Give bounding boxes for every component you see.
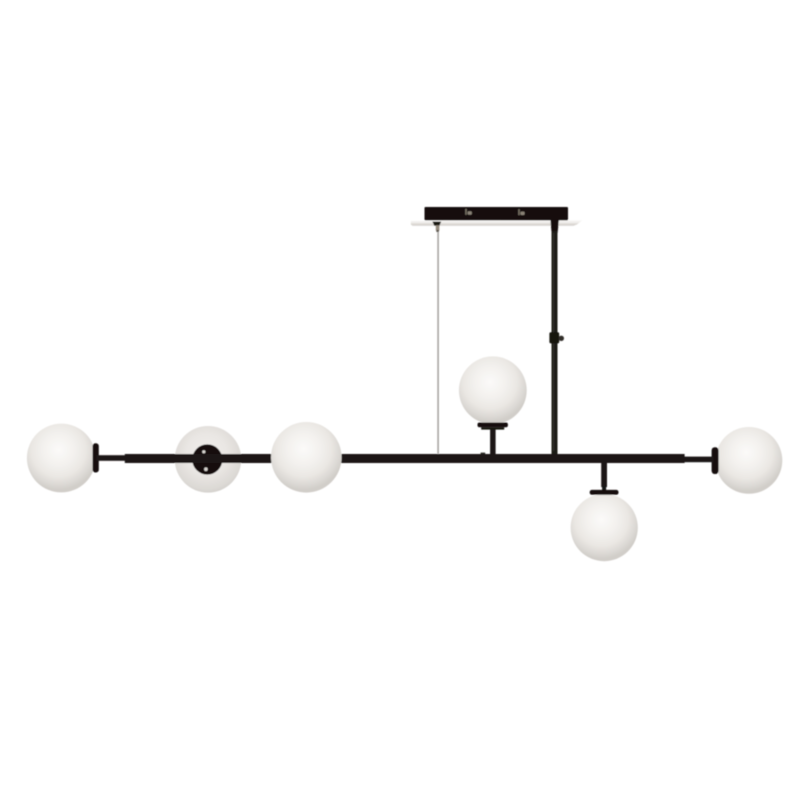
canopy screw left [465,209,472,215]
rod adjuster collar [549,332,559,343]
canopy box [425,207,569,220]
wire gripper tip [436,230,439,232]
globe 6 socket cap [712,447,719,474]
wire gripper cone [432,222,441,226]
mounting plate [411,220,583,225]
globe 4 socket disc [478,423,508,428]
horizontal bar [125,454,685,463]
holder disc screw bottom [204,467,208,471]
globe 4 (above bar) [459,356,527,424]
canopy screw right [518,209,524,215]
globe 5 neck [602,486,606,491]
globe 4 stem [490,429,496,454]
globe 5 (below bar) [571,494,638,561]
rod highlight [553,233,554,451]
rod top taper [550,220,559,234]
globe 1 socket cap [93,443,99,472]
rod adjuster knob [559,336,564,341]
bar screw bump [481,453,486,454]
globe 2 holder disc [192,444,222,474]
globe 5 stem [601,463,607,488]
globe 1 (far left) [27,424,96,493]
suspension wire [437,232,439,454]
wire gripper ferrule [436,225,440,230]
globe 3 (in front of bar) [271,422,342,493]
globe 5 socket disc [590,490,619,495]
mounting plate bottom shadow [411,224,577,226]
globe 2 (behind bar, left-middle) [175,426,242,493]
left arm [97,455,127,461]
globe 4 socket ring [481,427,504,429]
globe 6 (far right) [716,427,783,494]
holder disc screw top [202,450,205,453]
right arm [684,457,714,463]
support rod [552,231,558,454]
